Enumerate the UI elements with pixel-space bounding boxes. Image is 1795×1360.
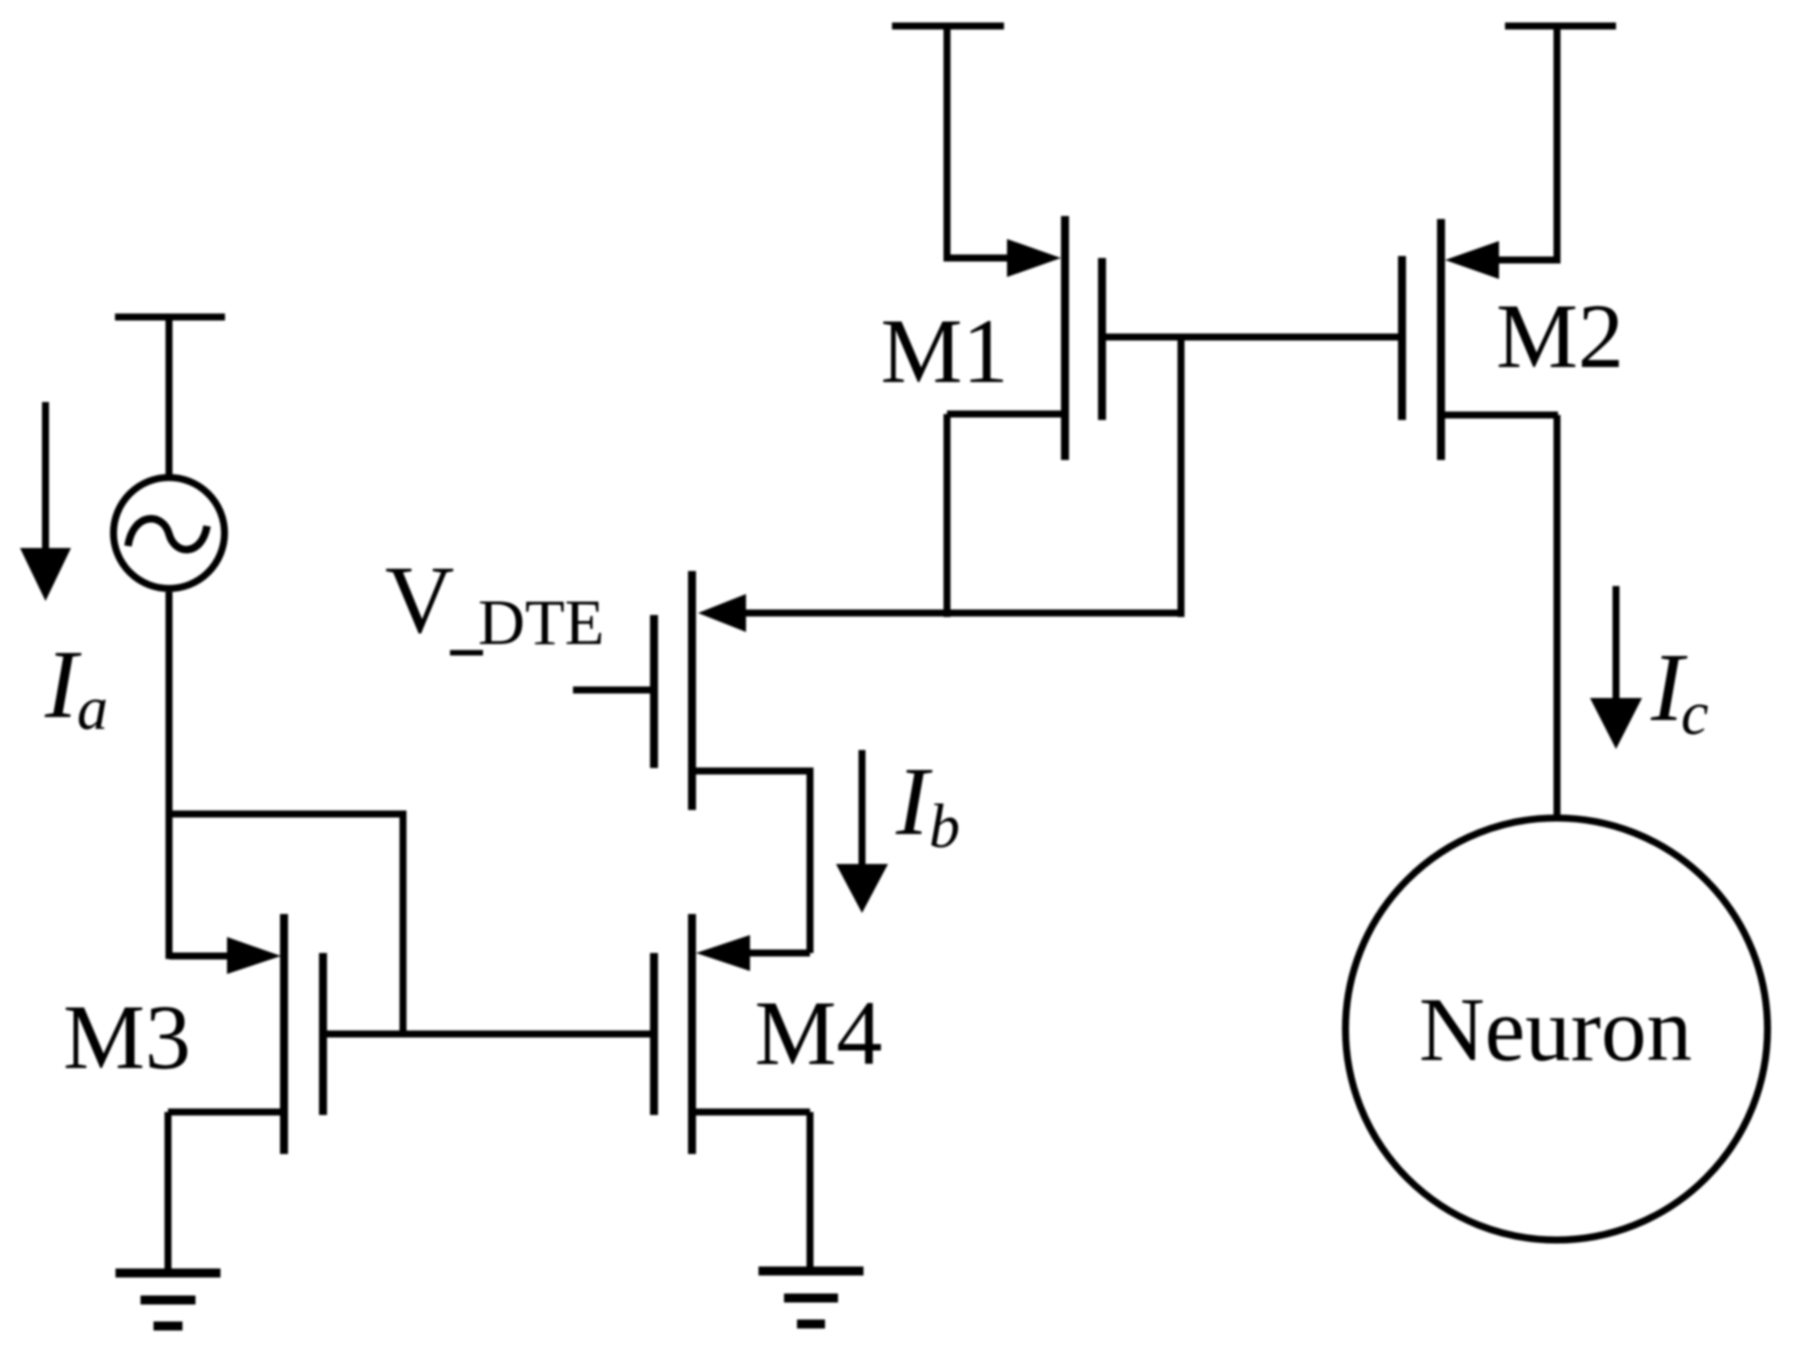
svg-text:V: V [385,546,454,653]
svg-text:Neuron: Neuron [1419,979,1692,1080]
svg-text:M4: M4 [755,982,883,1084]
svg-text:b: b [929,793,960,861]
svg-text:I: I [895,748,933,856]
svg-text:DTE: DTE [478,587,604,659]
svg-text:M3: M3 [63,986,191,1088]
svg-text:M1: M1 [881,300,1009,402]
svg-text:c: c [1681,680,1709,748]
svg-text:a: a [77,675,108,743]
svg-text:M2: M2 [1496,285,1624,387]
